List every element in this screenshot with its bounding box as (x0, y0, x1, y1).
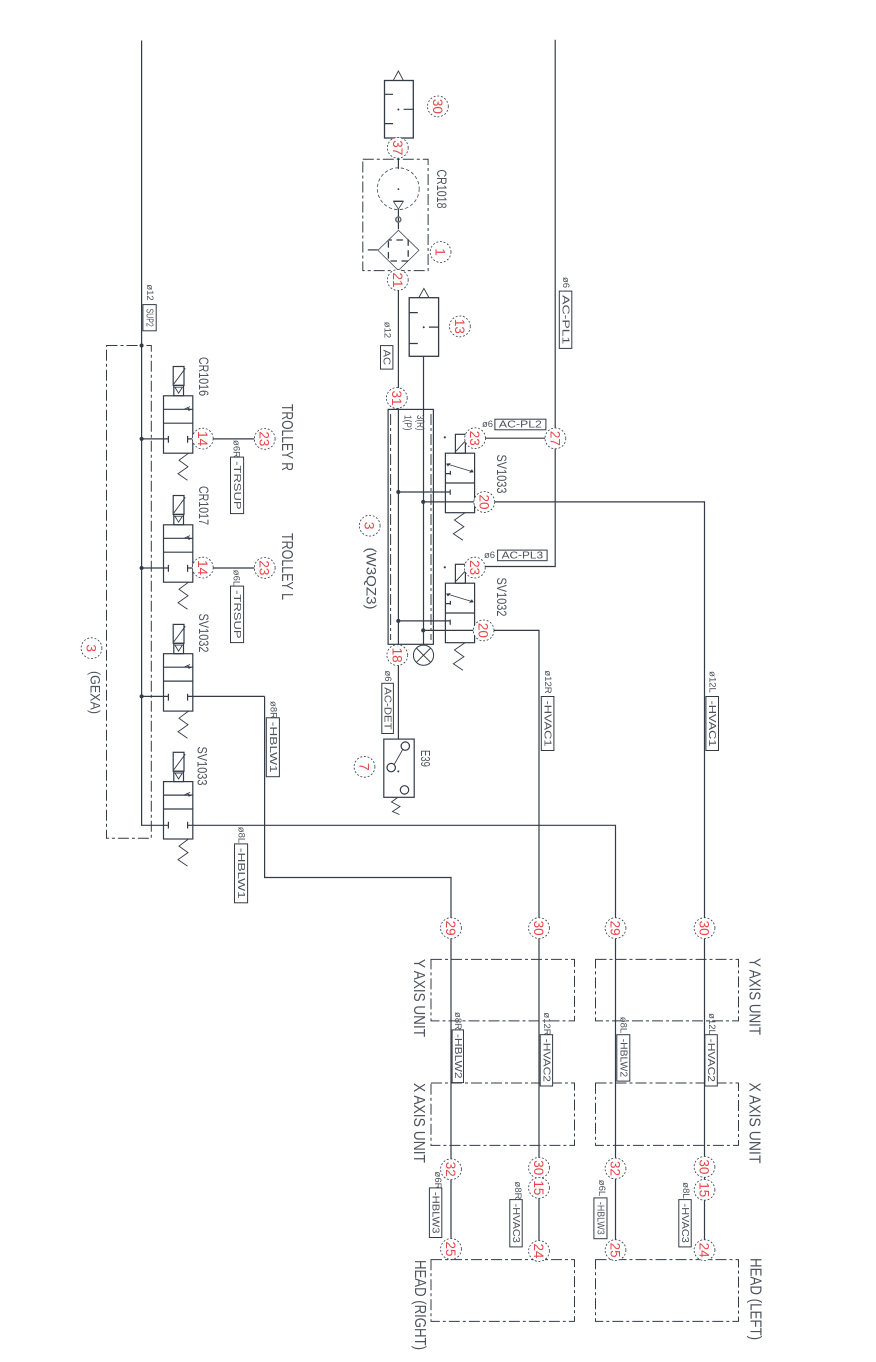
label L-HVAC1 box (706, 697, 719, 751)
svg-text:CR1017: CR1017 (196, 486, 211, 525)
svg-text:ø8L: ø8L (617, 1017, 628, 1033)
node supply-CR1016 branch (140, 437, 144, 441)
wire SV1033-mid R stub (398, 491, 450, 493)
svg-text:-HVAC3: -HVAC3 (679, 1204, 691, 1243)
box X axis unit left (431, 1083, 575, 1145)
label L-HBLW3 box (594, 1198, 607, 1239)
label L-HVAC3 box (679, 1200, 691, 1247)
svg-text:ø6: ø6 (560, 277, 571, 288)
svg-text:27: 27 (547, 431, 563, 446)
svg-text:-HBLW3: -HBLW3 (430, 1192, 442, 1234)
svg-text:29: 29 (443, 921, 459, 936)
svg-text:3: 3 (362, 522, 378, 530)
svg-text:ø8L: ø8L (235, 827, 246, 843)
svg-text:AC-PL1: AC-PL1 (560, 295, 572, 345)
label R-HBLW2 box (452, 1030, 464, 1083)
valve SV1033 left (164, 752, 193, 866)
balloon 24 left (529, 1241, 550, 1262)
balloon 7 (354, 756, 375, 777)
wire circle to filter diamond (397, 210, 399, 230)
svg-text:25: 25 (608, 1243, 624, 1258)
svg-text:15: 15 (697, 1182, 713, 1197)
svg-text:1(P): 1(P) (402, 415, 413, 431)
label AC-PL3 box (498, 549, 547, 561)
svg-text:32: 32 (608, 1161, 624, 1176)
svg-text:AC: AC (381, 350, 393, 366)
valve CR1017 (164, 496, 193, 610)
balloon 3 W3QZ3 (359, 515, 380, 536)
wire diamond left stub (368, 249, 378, 251)
balloon 30 top (428, 96, 449, 117)
balloon 30-15 right b (694, 1179, 715, 1200)
svg-text:-HBLW2: -HBLW2 (452, 1034, 464, 1079)
svg-text:14: 14 (195, 560, 211, 575)
valve CR1016 (164, 367, 193, 481)
svg-text:-HVAC1: -HVAC1 (542, 701, 554, 747)
svg-text:23: 23 (257, 431, 273, 446)
svg-text:ø6: ø6 (382, 670, 393, 681)
svg-text:ø12L: ø12L (707, 671, 718, 693)
svg-text:23: 23 (467, 560, 483, 575)
svg-text:ø6: ø6 (484, 550, 495, 561)
wire branch to CR1017 (142, 567, 265, 569)
svg-text:ø6L: ø6L (230, 570, 241, 586)
svg-text:E39: E39 (418, 750, 433, 767)
svg-text:CR1016: CR1016 (196, 357, 211, 396)
balloon 25 left (441, 1239, 462, 1260)
balloon 23 SV1033-mid (465, 428, 486, 449)
node supply-SV1032 branch (140, 694, 144, 698)
balloon 21 (387, 270, 408, 291)
exhaust indicator circle-X (413, 645, 433, 665)
svg-text:ø6R: ø6R (230, 440, 241, 458)
svg-text:ø6L: ø6L (596, 1180, 607, 1196)
svg-text:(W3QZ3): (W3QZ3) (364, 548, 379, 610)
svg-text:-HBLW2: -HBLW2 (617, 1039, 629, 1078)
balloon 30-15 left a (529, 1157, 550, 1178)
svg-text:20: 20 (476, 623, 492, 638)
svg-text:-HVAC3: -HVAC3 (510, 1204, 522, 1243)
pressure switch E39 (384, 739, 414, 814)
enclosure W3QZ3 dashdot right (430, 414, 432, 640)
svg-text:7: 7 (357, 763, 373, 771)
valve SV1032 mid (445, 564, 474, 670)
wire SV1033-left output to right elbow (188, 825, 616, 959)
svg-text:37: 37 (390, 140, 406, 155)
label R-HBLW1 box (266, 718, 279, 777)
node supply at GEXA box edge (140, 344, 144, 348)
box X axis unit right (596, 1083, 739, 1145)
balloon 23 CR1017 (254, 558, 275, 579)
balloon 3 GEXA (81, 638, 102, 659)
svg-text:-HVAC2: -HVAC2 (540, 1039, 552, 1082)
balloon 13 (450, 316, 471, 337)
wire SV1032-mid output down (423, 630, 539, 1259)
label R-TRSUP box (231, 457, 244, 513)
label L-HVAC2 box (705, 1035, 717, 1086)
svg-text:30: 30 (430, 99, 446, 114)
enclosure trolley GEXA box (107, 346, 152, 839)
svg-text:(GEXA): (GEXA) (87, 671, 102, 714)
svg-text:-HBLW1: -HBLW1 (235, 848, 247, 899)
wire SV1033-mid output to right down (423, 502, 704, 1260)
svg-text:HEAD (RIGHT): HEAD (RIGHT) (411, 1260, 428, 1350)
svg-text:3: 3 (84, 644, 100, 652)
svg-text:ø12: ø12 (144, 284, 155, 300)
svg-text:31: 31 (389, 391, 405, 406)
balloon 30-15 right a (694, 1157, 715, 1178)
balloon 20 SV1033-mid (474, 492, 495, 513)
wire AC-PL1 vertical (475, 40, 555, 567)
svg-text:32: 32 (443, 1162, 459, 1177)
svg-text:20: 20 (476, 495, 492, 510)
svg-text:-HVAC1: -HVAC1 (706, 701, 718, 747)
svg-text:SV1033: SV1033 (195, 747, 210, 786)
svg-text:30: 30 (531, 1160, 547, 1175)
svg-text:-TRSUP: -TRSUP (231, 461, 243, 510)
label AC-PL2 box (495, 419, 546, 431)
balloon 30-15 left b (529, 1178, 550, 1199)
balloon 25 right (605, 1240, 626, 1261)
box Y axis unit right (596, 959, 739, 1021)
svg-text:SUP2: SUP2 (144, 309, 156, 327)
muffler/dryer unit top (385, 71, 414, 138)
svg-text:ø12L: ø12L (706, 1013, 717, 1035)
svg-text:13: 13 (452, 319, 468, 334)
label L-TRSUP box (231, 586, 244, 643)
label R-HVAC3 box (510, 1200, 522, 1247)
wire SV1033-mid pilot to AC-PL1 (465, 437, 555, 439)
wire SV1032-left output down (265, 696, 451, 959)
svg-text:24: 24 (531, 1244, 547, 1259)
svg-text:ø6: ø6 (482, 419, 493, 430)
label L-HBLW2 box (617, 1035, 630, 1081)
balloon 29 left (441, 918, 462, 939)
svg-text:ø8R: ø8R (267, 701, 278, 719)
enclosure CR1018 assembly box (363, 159, 428, 270)
label AC-PL1 box (559, 291, 572, 348)
balloon 30 left (529, 918, 550, 939)
balloon 27 (545, 428, 566, 449)
svg-text:23: 23 (467, 431, 483, 446)
balloon 31 (386, 388, 407, 409)
balloon 23 SV1032-mid (464, 557, 485, 578)
svg-text:ø12R: ø12R (541, 1012, 552, 1035)
svg-text:30: 30 (531, 921, 547, 936)
balloon 32 left (441, 1159, 462, 1180)
valve SV1032 left (164, 624, 193, 738)
svg-text:AC-DET: AC-DET (382, 687, 394, 730)
balloon 37 (387, 137, 408, 158)
balloon 1 (430, 242, 451, 263)
svg-text:21: 21 (390, 273, 406, 288)
node supply-CR1017 branch (140, 566, 144, 570)
node P-line to SV1032-mid port (421, 628, 425, 632)
wire muffler to CR1018 (397, 138, 399, 169)
svg-text:24: 24 (697, 1243, 713, 1258)
svg-text:-HBLW3: -HBLW3 (594, 1202, 606, 1235)
svg-text:1: 1 (433, 248, 449, 256)
balloon 23 CR1016 (254, 429, 275, 450)
svg-text:14: 14 (195, 431, 211, 446)
wire right axis line down (615, 960, 617, 1260)
box HEAD unit left (431, 1260, 575, 1322)
label L-HBLW1 box (235, 844, 248, 903)
valve SV1033 mid (445, 434, 474, 540)
label AC-DET box (382, 683, 394, 733)
wire branch to SV1032 left (142, 695, 265, 697)
node pilot port dot SV1032-mid (444, 566, 446, 568)
node R-line to SV1033-mid stub (396, 490, 400, 494)
label SUP2 box (143, 305, 156, 331)
svg-text:ø12R: ø12R (542, 670, 553, 693)
wire R-line diamond to manifold (397, 271, 399, 645)
air unit (balloon 13) with triangle (409, 288, 438, 356)
node P-line to SV1033-mid port (421, 500, 425, 504)
svg-text:-HVAC2: -HVAC2 (705, 1039, 717, 1082)
svg-text:ø8R: ø8R (512, 1182, 523, 1200)
wire left axis line down (450, 959, 452, 1259)
svg-text:ø8R: ø8R (452, 1012, 463, 1030)
vacuum unit CR1018 circle (377, 168, 419, 222)
balloon 14 CR1017 (192, 557, 213, 578)
node pilot port dot SV1033-mid (444, 436, 446, 438)
svg-text:30: 30 (697, 921, 713, 936)
balloon 14 CR1016 (192, 428, 213, 449)
label R-HBLW3 box (429, 1188, 441, 1238)
svg-text:29: 29 (608, 921, 624, 936)
label R-HVAC2 box (540, 1035, 552, 1086)
wire R-line manifold to E39 (397, 644, 399, 739)
filter diamond in CR1018 (378, 230, 419, 270)
svg-text:TROLLEY R: TROLLEY R (278, 404, 295, 471)
svg-text:ø12: ø12 (382, 322, 393, 338)
wire supply SUP2 vertical + corner into SV1033 left port (142, 41, 169, 826)
enclosure W3QZ3 dashdot left (390, 414, 392, 640)
svg-text:18: 18 (389, 648, 405, 663)
balloon 24 right (694, 1240, 715, 1261)
balloon 18 (387, 645, 408, 666)
balloon 20 SV1032-mid (473, 620, 494, 641)
svg-text:TROLLEY L: TROLLEY L (278, 533, 295, 600)
svg-text:Y AXIS UNIT: Y AXIS UNIT (746, 958, 763, 1035)
svg-text:HEAD (LEFT): HEAD (LEFT) (747, 1258, 764, 1340)
box Y axis unit left (431, 959, 575, 1021)
label R-HVAC1 box (541, 697, 554, 751)
balloon 30 right (694, 918, 715, 939)
balloon 29 right (605, 918, 626, 939)
svg-text:ø6R: ø6R (432, 1172, 443, 1190)
wire branch to CR1016 (142, 438, 265, 440)
svg-text:15: 15 (531, 1180, 547, 1195)
svg-text:AC-PL3: AC-PL3 (502, 549, 544, 561)
label AC box (381, 346, 393, 370)
svg-text:3(R): 3(R) (414, 415, 425, 431)
svg-text:CR1018: CR1018 (434, 170, 449, 209)
manifold plate W3QZ3 (388, 409, 433, 644)
svg-text:25: 25 (443, 1242, 459, 1257)
svg-text:SV1032: SV1032 (196, 614, 211, 653)
svg-text:30: 30 (697, 1159, 713, 1174)
node R-line to SV1032-mid stub (396, 619, 400, 623)
svg-text:X AXIS UNIT: X AXIS UNIT (410, 1083, 427, 1163)
balloon 32 right (605, 1158, 626, 1179)
svg-text:23: 23 (257, 560, 273, 575)
svg-text:Y AXIS UNIT: Y AXIS UNIT (410, 959, 427, 1037)
wire P-line filter to exhaust circle (423, 356, 425, 645)
svg-text:-HBLW1: -HBLW1 (267, 722, 279, 773)
wire SV1032-mid R stub (398, 620, 450, 622)
svg-text:ø8L: ø8L (680, 1182, 691, 1198)
svg-text:AC-PL2: AC-PL2 (499, 419, 542, 431)
box HEAD unit right (596, 1260, 739, 1322)
svg-text:-TRSUP: -TRSUP (231, 590, 243, 639)
svg-text:SV1032: SV1032 (494, 578, 509, 617)
svg-text:SV1033: SV1033 (494, 454, 509, 493)
svg-text:X AXIS UNIT: X AXIS UNIT (746, 1083, 763, 1164)
